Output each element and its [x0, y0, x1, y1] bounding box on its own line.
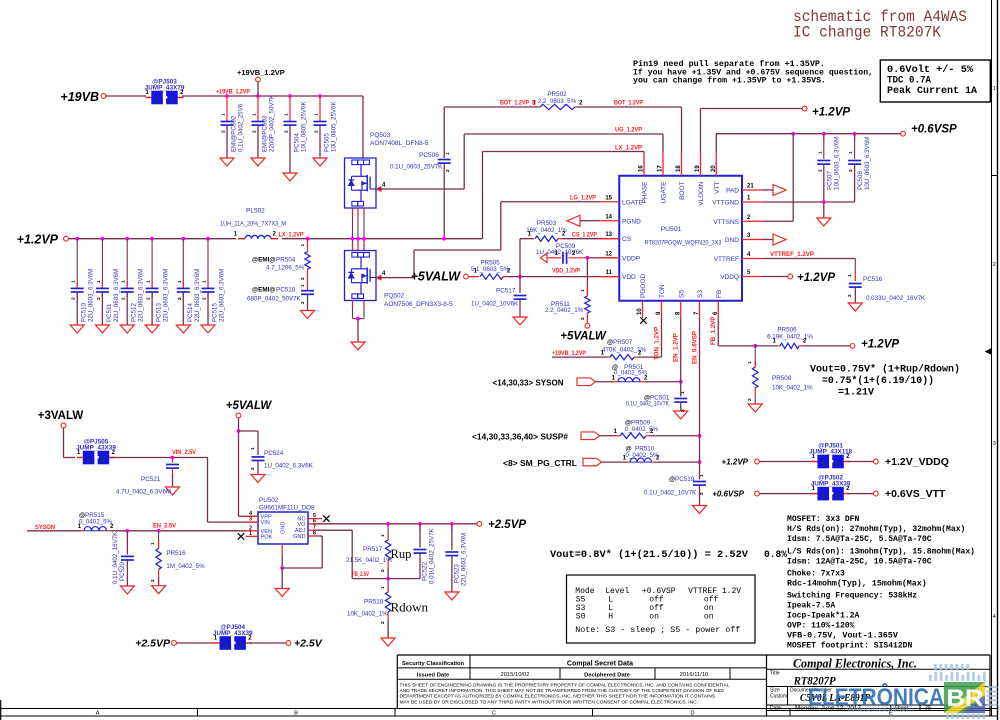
svg-text:PC508: PC508 — [857, 171, 864, 190]
svg-text:14: 14 — [605, 214, 612, 220]
svg-text:1: 1 — [202, 280, 208, 283]
svg-text:S0: S0 — [576, 612, 586, 622]
svg-text:22U_0603_6.3V6M: 22U_0603_6.3V6M — [138, 269, 145, 322]
svg-text:VDD: VDD — [622, 274, 636, 281]
svg-text:Note: S3 - sleep ; S5 - power: Note: S3 - sleep ; S5 - power off — [575, 625, 740, 635]
svg-text:2: 2 — [250, 467, 256, 470]
svg-text:2.2_0402_1%: 2.2_0402_1% — [545, 307, 584, 314]
svg-text:PR508: PR508 — [772, 375, 792, 382]
svg-text:Rup: Rup — [391, 547, 412, 561]
svg-text:=0.75*(1+(6.19/10)): =0.75*(1+(6.19/10)) — [822, 375, 934, 387]
svg-text:BOT_1.2VP: BOT_1.2VP — [614, 100, 643, 107]
svg-text:2.2_0603_5%: 2.2_0603_5% — [538, 98, 577, 105]
svg-text:+1.2VP: +1.2VP — [797, 272, 835, 284]
svg-text:RT8207PGQW_WQFN20_3X3: RT8207PGQW_WQFN20_3X3 — [645, 240, 722, 247]
svg-text:+1.2VP: +1.2VP — [722, 458, 749, 467]
svg-text:10U_0603_6.3V6M: 10U_0603_6.3V6M — [864, 137, 871, 190]
svg-text:18: 18 — [676, 165, 682, 172]
svg-text:2: 2 — [150, 579, 156, 582]
svg-text:1: 1 — [300, 244, 306, 247]
svg-text:+2.5VP: +2.5VP — [488, 519, 526, 531]
svg-text:0.1U_0402_25V6: 0.1U_0402_25V6 — [238, 103, 245, 152]
svg-text:VDD_1.2VP: VDD_1.2VP — [552, 268, 580, 275]
svg-text:PC520: PC520 — [119, 562, 126, 581]
svg-text:Iocp-Ipeak*1.2A: Iocp-Ipeak*1.2A — [787, 611, 859, 621]
svg-text:22U_0603_6.3V6M: 22U_0603_6.3V6M — [88, 269, 95, 322]
svg-text:C: C — [492, 711, 496, 717]
svg-text:1: 1 — [445, 152, 451, 155]
svg-text:10U_0805_25V6K: 10U_0805_25V6K — [301, 101, 308, 152]
svg-text:4.7_1206_5%: 4.7_1206_5% — [266, 265, 305, 272]
svg-text:2: 2 — [680, 409, 686, 412]
svg-text:2: 2 — [314, 130, 320, 133]
svg-text:VIN: VIN — [261, 520, 270, 526]
svg-text:1: 1 — [121, 280, 127, 283]
svg-text:PR502: PR502 — [547, 91, 567, 98]
svg-text:BR: BR — [947, 685, 984, 712]
svg-text:<14,30,33,36,40> SUSP#: <14,30,33,36,40> SUSP# — [472, 433, 569, 442]
svg-text:1: 1 — [380, 534, 386, 537]
svg-text:VTTSNS: VTTSNS — [713, 219, 739, 226]
svg-text:+1.2VP: +1.2VP — [17, 233, 59, 247]
svg-text:1: 1 — [156, 98, 159, 104]
svg-text:20: 20 — [711, 165, 717, 172]
svg-text:2: 2 — [170, 98, 173, 104]
svg-text:VFB-0.75V, Vout-1.365V: VFB-0.75V, Vout-1.365V — [787, 632, 898, 641]
svg-text:JUMP_43X39: JUMP_43X39 — [811, 481, 851, 488]
svg-text:1: 1 — [150, 542, 156, 545]
svg-text:2: 2 — [993, 262, 996, 268]
svg-text:Security Classification: Security Classification — [402, 661, 465, 667]
svg-text:PL502: PL502 — [246, 208, 265, 215]
svg-text:1: 1 — [993, 86, 996, 92]
svg-text:1: 1 — [252, 113, 258, 116]
svg-text:PC518: PC518 — [276, 287, 296, 294]
svg-text:+2.5V: +2.5V — [294, 638, 323, 650]
svg-text:TON: TON — [659, 284, 666, 298]
svg-text:+1.2VP: +1.2VP — [861, 339, 899, 351]
svg-text:Custom: Custom — [770, 694, 787, 700]
svg-text:2016/11/10: 2016/11/10 — [680, 672, 709, 678]
svg-text:A: A — [96, 711, 100, 717]
svg-text:FB_1.2VP: FB_1.2VP — [710, 316, 717, 345]
svg-text:www.eletronicabr.com: www.eletronicabr.com — [846, 705, 913, 714]
svg-text:EN_0.6VSP: EN_0.6VSP — [692, 331, 699, 364]
svg-text:GND: GND — [725, 237, 740, 244]
svg-text:Peak Current 1A: Peak Current 1A — [887, 85, 978, 97]
svg-text:4: 4 — [993, 614, 996, 620]
svg-text:CS: CS — [622, 236, 632, 243]
svg-text:VDDP: VDDP — [622, 255, 640, 262]
svg-text:PC505: PC505 — [324, 133, 331, 152]
svg-text:1: 1 — [822, 494, 825, 500]
svg-text:1: 1 — [249, 531, 252, 537]
svg-text:0.01U_0402_25V7K: 0.01U_0402_25V7K — [429, 527, 436, 584]
svg-text:Date:: Date: — [770, 706, 782, 712]
svg-text:MOSFET footprint: SIS412DN: MOSFET footprint: SIS412DN — [787, 641, 912, 651]
svg-text:+3VALW: +3VALW — [38, 410, 84, 422]
svg-text:Choke: 7x7x3: Choke: 7x7x3 — [787, 569, 845, 579]
svg-text:Compal Secret Data: Compal Secret Data — [567, 660, 633, 667]
svg-text:EN_2.5V: EN_2.5V — [153, 523, 177, 530]
svg-text:22U_0603_6.3V6M: 22U_0603_6.3V6M — [219, 269, 226, 322]
svg-text:1: 1 — [284, 113, 290, 116]
svg-text:H: H — [608, 612, 613, 622]
svg-text:16: 16 — [639, 165, 645, 172]
svg-text:IC change RT8207K: IC change RT8207K — [793, 24, 942, 42]
svg-text:1M_0402_5%: 1M_0402_5% — [166, 563, 205, 570]
svg-text:LX_1.2VP: LX_1.2VP — [615, 145, 642, 152]
svg-text:13: 13 — [605, 232, 612, 238]
svg-text:0.1U_0603_25V7K: 0.1U_0603_25V7K — [390, 164, 443, 171]
svg-text:H/S Rds(on): 27mohm(Typ), 32mo: H/S Rds(on): 27mohm(Typ), 32mohm(Max) — [787, 524, 965, 534]
svg-text:on: on — [649, 612, 659, 622]
svg-text:21: 21 — [747, 184, 754, 190]
svg-text:2015/10/02: 2015/10/02 — [500, 672, 529, 678]
svg-text:S3: S3 — [697, 290, 704, 298]
svg-text:22U_0603_6.3V6M: 22U_0603_6.3V6M — [194, 269, 201, 322]
svg-text:JUMP_43X39: JUMP_43X39 — [213, 630, 253, 637]
svg-text:VTTREF_1.2VP: VTTREF_1.2VP — [770, 251, 814, 258]
svg-text:0_0402_5%: 0_0402_5% — [79, 519, 113, 526]
svg-text:on: on — [704, 612, 714, 622]
svg-text:0.1U_0402_16V7K: 0.1U_0402_16V7K — [112, 531, 119, 584]
svg-text:MAY BE USED BY OR DISCLOSED TO: MAY BE USED BY OR DISCLOSED TO ANY THIRD… — [400, 699, 698, 704]
svg-text:1: 1 — [146, 280, 152, 283]
svg-text:1: 1 — [380, 586, 386, 589]
svg-text:@EMI@: @EMI@ — [252, 257, 275, 264]
svg-text:+0.6VSP: +0.6VSP — [911, 124, 957, 136]
svg-text:+5VALW: +5VALW — [226, 400, 273, 412]
svg-text:2: 2 — [847, 294, 853, 297]
svg-text:PC507: PC507 — [826, 171, 833, 190]
svg-text:19: 19 — [695, 165, 701, 172]
svg-text:22U_0603_6.3V6M: 22U_0603_6.3V6M — [163, 269, 170, 322]
svg-text:PC506: PC506 — [419, 152, 439, 159]
svg-text:2: 2 — [121, 297, 127, 300]
svg-text:PC522: PC522 — [422, 562, 429, 581]
svg-text:UGATE: UGATE — [661, 181, 668, 204]
svg-text:15: 15 — [605, 195, 612, 201]
svg-text:PC514: PC514 — [187, 303, 194, 322]
svg-text:PR506: PR506 — [777, 327, 797, 334]
svg-text:2: 2 — [300, 301, 306, 304]
svg-text:PC504: PC504 — [294, 133, 301, 152]
svg-text:3: 3 — [993, 441, 996, 447]
svg-text:VDDQ: VDDQ — [720, 274, 739, 281]
svg-text:PGOOD: PGOOD — [640, 273, 647, 298]
svg-text:21.5K_0402_1%: 21.5K_0402_1% — [346, 557, 392, 564]
svg-text:1: 1 — [847, 274, 853, 277]
svg-text:4.7U_0402_6.3V6M: 4.7U_0402_6.3V6M — [116, 489, 171, 496]
svg-text:LG_1.2VP: LG_1.2VP — [570, 195, 596, 202]
svg-text:2: 2 — [300, 277, 306, 280]
svg-text:DEPARTMENT EXCEPT AS AUTHORIZE: DEPARTMENT EXCEPT AS AUTHORIZED BY COMPA… — [400, 694, 716, 699]
svg-text:2: 2 — [836, 462, 839, 468]
svg-text:<8> SM_PG_CTRL: <8> SM_PG_CTRL — [503, 459, 577, 468]
svg-text:1: 1 — [822, 462, 825, 468]
svg-text:AON7506_DFN3X3-8-5: AON7506_DFN3X3-8-5 — [384, 301, 453, 308]
svg-text:JUMP_43X79: JUMP_43X79 — [145, 85, 185, 92]
svg-text:1: 1 — [580, 289, 586, 292]
svg-text:PC510: PC510 — [81, 303, 88, 322]
svg-text:2: 2 — [146, 297, 152, 300]
svg-text:2: 2 — [252, 130, 258, 133]
svg-text:VLDOIN: VLDOIN — [698, 181, 705, 206]
svg-text:VTTGND: VTTGND — [712, 200, 739, 207]
svg-text:1: 1 — [87, 458, 90, 464]
svg-text:CS_1.2VP: CS_1.2VP — [572, 232, 597, 239]
svg-text:1U_0402_10V6K: 1U_0402_10V6K — [536, 249, 584, 256]
svg-text:PR518: PR518 — [364, 599, 384, 606]
svg-text:BOT_1.2VP_R: BOT_1.2VP_R — [500, 100, 536, 107]
svg-text:PC513: PC513 — [156, 303, 163, 322]
svg-text:MOSFET: 3x3 DFN: MOSFET: 3x3 DFN — [787, 515, 859, 524]
svg-text:2: 2 — [380, 621, 386, 624]
svg-text:PC524: PC524 — [264, 450, 284, 457]
svg-text:+19VB_1.2VP: +19VB_1.2VP — [237, 68, 285, 77]
svg-text:10K_0402_1%: 10K_0402_1% — [772, 385, 813, 392]
svg-text:2200P_0402_50V7K: 2200P_0402_50V7K — [269, 94, 276, 152]
svg-text:+5VALW: +5VALW — [560, 331, 607, 343]
svg-text:1: 1 — [177, 280, 183, 283]
svg-text:22U_0603_6.3V6M: 22U_0603_6.3V6M — [113, 269, 120, 322]
svg-text:PC515: PC515 — [212, 303, 219, 322]
svg-text:1: 1 — [96, 280, 102, 283]
svg-text:11: 11 — [606, 270, 613, 276]
svg-text:22U_0603_6.3V6M: 22U_0603_6.3V6M — [461, 533, 468, 586]
svg-text:2: 2 — [836, 494, 839, 500]
svg-text:2: 2 — [71, 297, 77, 300]
svg-text:Rdown: Rdown — [391, 600, 429, 615]
svg-text:FB_2.5V: FB_2.5V — [352, 571, 370, 578]
svg-text:VIN_2.5V: VIN_2.5V — [172, 449, 197, 456]
svg-text:2: 2 — [747, 398, 753, 401]
svg-text:1: 1 — [680, 391, 686, 394]
svg-text:2: 2 — [380, 569, 386, 572]
svg-text:3: 3 — [249, 517, 252, 523]
svg-text:AND TRADE SECRET INFORMATION.: AND TRADE SECRET INFORMATION. THIS SHEET… — [400, 688, 725, 693]
svg-text:1: 1 — [221, 113, 227, 116]
svg-text:L/S Rds(on): 13mohm(Typ), 15.8: L/S Rds(on): 13mohm(Typ), 15.8mohm(Max) — [787, 547, 975, 557]
svg-text:10U_0603_6.3V6M: 10U_0603_6.3V6M — [833, 137, 840, 190]
svg-text:SYSON: SYSON — [35, 524, 55, 531]
svg-text:PR507: PR507 — [613, 339, 633, 346]
svg-text:PU502: PU502 — [259, 497, 279, 504]
svg-text:2: 2 — [284, 130, 290, 133]
svg-text:2: 2 — [221, 130, 227, 133]
svg-text:1UH_11A_20%_7X7X3_M: 1UH_11A_20%_7X7X3_M — [220, 221, 286, 228]
svg-text:2: 2 — [580, 317, 586, 320]
svg-text:1: 1 — [817, 151, 823, 154]
svg-text:GND: GND — [281, 522, 287, 534]
svg-text:+0.6VSP: +0.6VSP — [712, 490, 744, 499]
svg-text:UG_1.2VP: UG_1.2VP — [615, 127, 642, 134]
svg-text:6: 6 — [313, 518, 316, 524]
svg-text:JUMP_43X39: JUMP_43X39 — [76, 445, 116, 452]
svg-text:OVP: 110%-120%: OVP: 110%-120% — [787, 622, 855, 631]
svg-text:1: 1 — [747, 361, 753, 364]
svg-text:1: 1 — [848, 151, 854, 154]
svg-text:17: 17 — [658, 165, 664, 172]
svg-text:2: 2 — [817, 169, 823, 172]
svg-text:2: 2 — [96, 297, 102, 300]
svg-text:VTT: VTT — [714, 181, 721, 193]
svg-text:Vout=0.8V* (1+(21.5/10)) =: Vout=0.8V* (1+(21.5/10)) = 2.52V — [550, 549, 748, 560]
svg-text:PU501: PU501 — [661, 226, 682, 233]
svg-text:10: 10 — [637, 308, 643, 315]
svg-text:you can change from +1.35VP to: you can change from +1.35VP to +1.35VS. — [633, 77, 826, 86]
svg-text:+19VB: +19VB — [60, 90, 99, 104]
svg-text:Idsm: 7.5A@Ta-25C, 5.5A@Ta-70C: Idsm: 7.5A@Ta-25C, 5.5A@Ta-70C — [787, 534, 932, 544]
svg-text:VO: VO — [297, 522, 306, 528]
svg-text:1: 1 — [250, 447, 256, 450]
svg-text:1: 1 — [224, 644, 227, 650]
svg-text:POK: POK — [261, 534, 273, 540]
svg-text:FB: FB — [716, 290, 723, 298]
svg-text:Vout=0.75V* (1+Rup/Rdown): Vout=0.75V* (1+Rup/Rdown) — [810, 364, 960, 376]
svg-text:@EMI@: @EMI@ — [252, 287, 275, 294]
svg-text:1: 1 — [314, 113, 320, 116]
svg-text:680P_0402_50V7K: 680P_0402_50V7K — [247, 296, 302, 303]
svg-text:Idsm: 12A@Ta-25C, 10.5A@Ta-70C: Idsm: 12A@Ta-25C, 10.5A@Ta-70C — [787, 557, 932, 567]
svg-text:0_0402_5%: 0_0402_5% — [626, 452, 660, 459]
svg-text:1: 1 — [300, 284, 306, 287]
svg-text:Deciphered Date: Deciphered Date — [584, 672, 631, 678]
svg-text:2: 2 — [848, 169, 854, 172]
svg-text:PQ503: PQ503 — [370, 132, 391, 139]
svg-text:12: 12 — [605, 251, 612, 257]
svg-text:0.1U_0402_10V7K: 0.1U_0402_10V7K — [626, 401, 670, 408]
svg-text:+0.6VS_VTT: +0.6VS_VTT — [885, 488, 946, 500]
svg-text:PGND: PGND — [622, 218, 641, 225]
svg-text:10U_0805_25V6K: 10U_0805_25V6K — [331, 101, 338, 152]
svg-text:PC512: PC512 — [131, 303, 138, 322]
svg-text:GND: GND — [293, 534, 305, 540]
svg-text:PR517: PR517 — [363, 546, 383, 553]
svg-text:PC521: PC521 — [141, 476, 161, 483]
svg-text:PR516: PR516 — [166, 550, 186, 557]
svg-text:EMI@PC503: EMI@PC503 — [262, 115, 269, 152]
svg-text:Rdc-14mohm(Typ), 15mohm(Max): Rdc-14mohm(Typ), 15mohm(Max) — [787, 579, 927, 589]
svg-text:10K_0402_1%: 10K_0402_1% — [347, 611, 388, 618]
svg-text:VTTREF: VTTREF — [714, 256, 739, 263]
svg-text:PC516: PC516 — [863, 276, 883, 283]
svg-text:0_0402_5%: 0_0402_5% — [625, 426, 659, 433]
svg-text:0.8%: 0.8% — [764, 549, 787, 560]
svg-text:Title: Title — [770, 671, 780, 677]
svg-text:Ipeak-7.5A: Ipeak-7.5A — [787, 601, 835, 611]
svg-text:B: B — [294, 711, 298, 717]
svg-text:PR504: PR504 — [276, 257, 296, 264]
svg-text:Compal Electronics, Inc.: Compal Electronics, Inc. — [793, 655, 917, 670]
svg-text:+1.2V_VDDQ: +1.2V_VDDQ — [885, 456, 949, 468]
svg-text:8: 8 — [313, 531, 316, 537]
svg-text:PC517: PC517 — [496, 288, 516, 295]
svg-text:LGATE: LGATE — [622, 199, 643, 206]
svg-text:EN_1.2VP: EN_1.2VP — [673, 333, 680, 362]
svg-text:1U_0402_6.3V6K: 1U_0402_6.3V6K — [264, 463, 314, 470]
svg-text:D: D — [690, 711, 694, 717]
svg-text:2: 2 — [239, 644, 242, 650]
svg-text:+5VALW: +5VALW — [411, 270, 462, 284]
svg-text:2: 2 — [445, 169, 451, 172]
svg-text:Issued Date: Issued Date — [417, 672, 450, 678]
svg-text:Switching Frequency: 538kHz: Switching Frequency: 538kHz — [787, 591, 917, 601]
svg-text:<14,30,33> SYSON: <14,30,33> SYSON — [493, 379, 564, 388]
svg-text:0.1U_0402_10V7K: 0.1U_0402_10V7K — [644, 490, 697, 497]
svg-text:PQ502: PQ502 — [384, 293, 405, 300]
svg-text:0_0402_5%: 0_0402_5% — [614, 370, 648, 377]
svg-text:1: 1 — [71, 280, 77, 283]
svg-text:+19VB_1.2VP: +19VB_1.2VP — [216, 89, 250, 96]
svg-text:1U_0402_10V6K: 1U_0402_10V6K — [471, 301, 519, 308]
svg-text:2: 2 — [202, 297, 208, 300]
svg-text:THIS SHEET OF ENGINEERING DRAW: THIS SHEET OF ENGINEERING DRAWING IS THE… — [400, 683, 730, 688]
svg-text:S5: S5 — [678, 290, 685, 298]
svg-text:PC511: PC511 — [106, 303, 113, 322]
svg-text:1: 1 — [699, 474, 705, 477]
svg-text:TON_1.2VP: TON_1.2VP — [654, 327, 661, 360]
svg-text:BOOT: BOOT — [679, 181, 686, 199]
svg-text:2: 2 — [177, 297, 183, 300]
svg-text:+19VB_1.2VP: +19VB_1.2VP — [552, 350, 586, 357]
svg-text:+2.5VP: +2.5VP — [135, 638, 171, 650]
svg-text:2: 2 — [699, 492, 705, 495]
svg-text:AON7408L_DFN8-5: AON7408L_DFN8-5 — [370, 140, 429, 147]
svg-text:G9661MF11U_DO8: G9661MF11U_DO8 — [259, 505, 315, 512]
svg-text:PC523: PC523 — [454, 564, 461, 583]
svg-text:2: 2 — [102, 458, 105, 464]
svg-text:PAD: PAD — [726, 188, 739, 195]
svg-text:+1.2VP: +1.2VP — [812, 107, 850, 119]
svg-text:0.033U_0402_16V7K: 0.033U_0402_16V7K — [866, 295, 926, 302]
svg-text:LX_1.2VP: LX_1.2VP — [279, 231, 304, 238]
svg-text:PC519: PC519 — [675, 476, 695, 483]
svg-text:=1.21V: =1.21V — [838, 388, 874, 399]
svg-text:EMI@PC502: EMI@PC502 — [231, 115, 238, 152]
